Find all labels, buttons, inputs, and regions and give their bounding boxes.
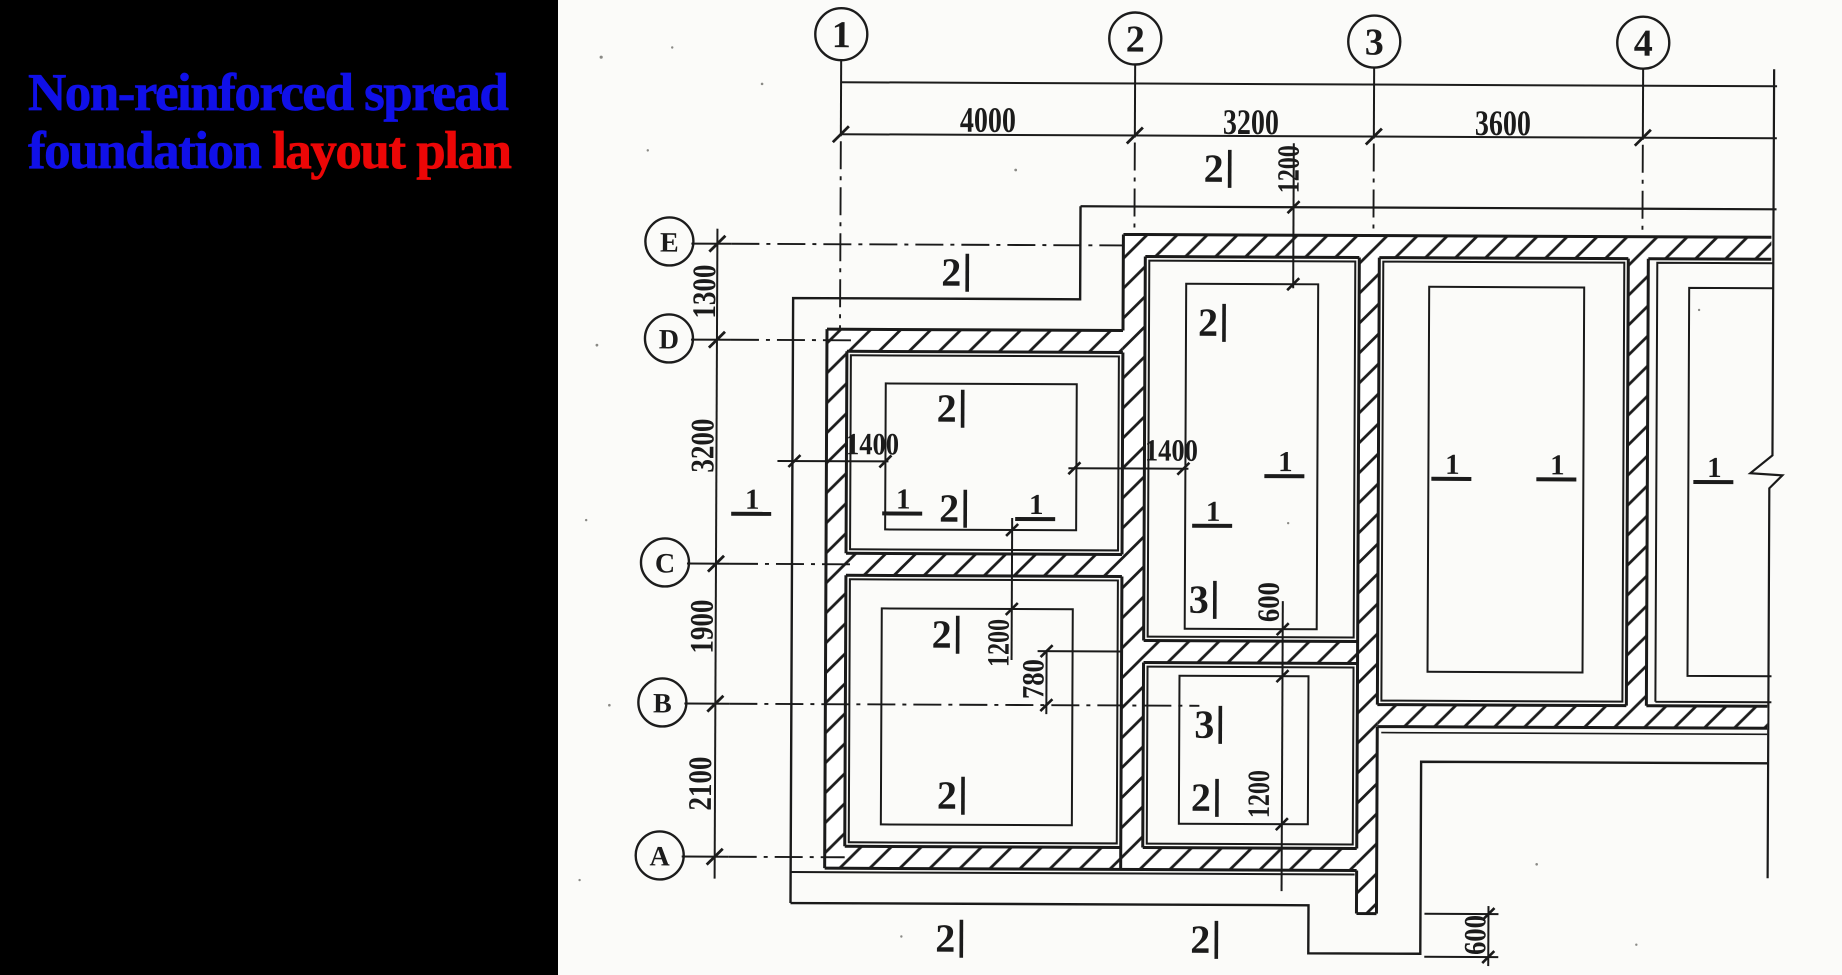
svg-text:600: 600 (1457, 915, 1492, 955)
dim 1200 top (1287, 143, 1300, 290)
row circles left (636, 217, 694, 879)
svg-text:3: 3 (1189, 577, 1209, 622)
svg-text:C: C (655, 548, 675, 579)
wall face lines (824, 233, 1771, 915)
footing step below wall B right (1381, 733, 1767, 735)
wall column 1 hatch (825, 329, 847, 868)
svg-text:1: 1 (832, 14, 851, 56)
axis A (729, 856, 845, 859)
dim 1400 room3 (1068, 462, 1189, 475)
grid circle numbers (832, 14, 1653, 65)
svg-text:2100: 2100 (683, 757, 719, 811)
row circle letters (650, 227, 680, 872)
axis D (731, 339, 851, 342)
footing inner edge room1 (885, 383, 1077, 530)
svg-text:2: 2 (932, 612, 952, 657)
footing step line room2 (849, 579, 1118, 843)
footing inner edge room3 (1185, 284, 1319, 630)
wall column 2 hatch (1121, 234, 1146, 869)
svg-text:780: 780 (1015, 659, 1050, 699)
wall column 1 faces (825, 329, 847, 868)
left dimension texts rotated (683, 265, 723, 811)
svg-text:1900: 1900 (685, 600, 721, 654)
wall column 4 hatch (1626, 237, 1648, 728)
svg-text:A: A (650, 841, 671, 872)
svg-text:2: 2 (937, 773, 957, 818)
footing step line room6 (1655, 263, 1773, 703)
axis E (731, 244, 1123, 246)
scan specks (578, 46, 1701, 946)
svg-text:1: 1 (1206, 496, 1221, 528)
wall E hatch (1123, 234, 1771, 259)
svg-text:2: 2 (1191, 775, 1211, 820)
svg-text:1: 1 (896, 483, 911, 515)
svg-text:4000: 4000 (960, 100, 1016, 140)
axis 4 (1641, 145, 1643, 237)
wall B faces (1377, 705, 1767, 729)
footing inner edge room6 (1687, 288, 1773, 676)
axis 2 (1133, 143, 1135, 235)
wall D hatch (827, 329, 1123, 352)
svg-text:3600: 3600 (1475, 103, 1531, 143)
svg-text:1: 1 (1445, 449, 1460, 481)
svg-text:2: 2 (1190, 917, 1210, 962)
svg-text:1: 1 (745, 484, 760, 516)
dim 1400 room1 (777, 455, 891, 467)
outer footing outline left/top step (790, 205, 1080, 904)
svg-text:2: 2 (937, 386, 957, 431)
svg-text:1: 1 (1707, 452, 1722, 484)
title panel (0, 0, 558, 975)
footing step line room3 (1148, 261, 1356, 638)
footing step line room1 (850, 355, 1119, 550)
svg-text:3: 3 (1194, 702, 1214, 747)
dim 780 (1037, 645, 1121, 714)
svg-text:2: 2 (935, 916, 955, 961)
wall M faces (1144, 641, 1358, 664)
outer footing outline bottom right steps (790, 759, 1767, 955)
wall B hatch (1377, 705, 1767, 729)
wall D faces (827, 329, 1123, 352)
wall M hatch (1136, 641, 1358, 664)
grid circles top (815, 8, 1669, 69)
top dimension texts (960, 100, 1531, 143)
footing step line room4 (1147, 667, 1354, 845)
dim 600 and 1200 rooms 3-4 (1276, 601, 1289, 891)
svg-text:1400: 1400 (846, 426, 899, 461)
grid line stems and dash-dot axes (682, 59, 1643, 861)
break line right edge (1749, 69, 1785, 878)
svg-text:1: 1 (1550, 449, 1565, 481)
svg-text:D: D (659, 324, 679, 355)
svg-text:1200: 1200 (1241, 770, 1276, 818)
svg-text:1200: 1200 (981, 619, 1016, 667)
dimension tick marks (707, 126, 1651, 869)
axis 1 (839, 141, 842, 331)
svg-text:3200: 3200 (685, 419, 721, 473)
axis 3 (1372, 144, 1374, 236)
axis C (730, 563, 850, 566)
wall column 2 faces (1121, 234, 1146, 869)
footing inner edge room5 (1428, 287, 1585, 673)
footing inner edge room2 (881, 608, 1073, 825)
left dimension line (715, 229, 718, 879)
axis B (729, 704, 1199, 706)
wall C faces (846, 553, 1122, 576)
svg-text:1400: 1400 (1145, 433, 1198, 468)
dim 1200 rooms 1-2 (1006, 518, 1019, 660)
svg-text:2: 2 (941, 250, 961, 295)
svg-text:1300: 1300 (687, 265, 723, 319)
svg-text:3: 3 (1365, 22, 1384, 64)
wall A faces (825, 846, 1357, 870)
svg-text:E: E (660, 227, 679, 258)
section marks type 3 (1188, 577, 1215, 747)
svg-text:4: 4 (1634, 23, 1653, 65)
footing step below wall A (791, 872, 1355, 874)
section marks type 1 (745, 444, 1722, 530)
footing inner edge room4 (1179, 676, 1309, 825)
svg-text:600: 600 (1251, 582, 1286, 622)
top dimension lines (715, 82, 1777, 884)
wall column 3 faces (1356, 257, 1379, 913)
svg-text:2: 2 (1198, 300, 1218, 345)
svg-text:2: 2 (1204, 146, 1224, 191)
svg-text:2: 2 (939, 486, 959, 531)
svg-text:2: 2 (1126, 18, 1145, 60)
wall column 4 faces (1626, 259, 1648, 706)
footing outline top line C (1081, 206, 1777, 209)
section marks type 2 (930, 145, 1224, 962)
wall C hatch (826, 553, 1122, 576)
svg-text:1: 1 (1029, 489, 1044, 521)
wall column 3 hatch (1356, 235, 1379, 913)
dim 600 bottom right (1424, 906, 1498, 966)
svg-text:1: 1 (1278, 446, 1293, 478)
svg-text:B: B (653, 688, 672, 719)
wall E faces (1123, 234, 1771, 259)
svg-text:1200: 1200 (1271, 145, 1306, 193)
wall A hatch (825, 846, 1357, 870)
footing step line room5 (1381, 262, 1624, 702)
svg-text:3200: 3200 (1223, 102, 1279, 142)
